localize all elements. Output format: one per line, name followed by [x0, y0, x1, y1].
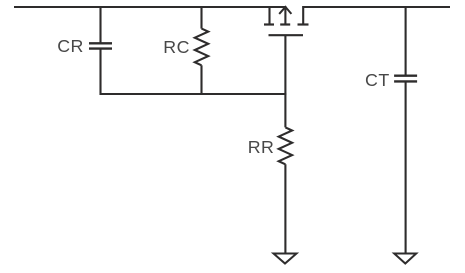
ground symbol below CT — [394, 254, 416, 264]
Q1 substrate arrow — [284, 7, 286, 25]
wire RC top lead — [200, 7, 202, 29]
wire RR bottom lead — [284, 164, 286, 253]
resistor RR — [279, 127, 292, 164]
wire CT top lead — [405, 7, 407, 76]
transistor Q1 (MOSFET) — [264, 6, 309, 35]
resistor RC — [195, 29, 208, 66]
wire RC bottom lead — [200, 65, 202, 95]
Q1 middle contact bar — [280, 23, 290, 25]
wire CR bottom lead — [99, 49, 101, 95]
label RR — [248, 139, 275, 157]
Q1 gate line — [269, 34, 304, 36]
label CT — [365, 72, 390, 90]
capacitor CR — [89, 43, 112, 48]
wire CR top lead — [99, 7, 101, 43]
label CR — [57, 38, 84, 56]
Q1 left leg (drain) — [268, 6, 270, 25]
wire bottom bus — [100, 93, 287, 95]
Q1 right contact bar — [298, 23, 309, 25]
wire CT bottom lead — [405, 81, 407, 253]
wire gate down to bus and RR — [284, 35, 286, 127]
Q1 right leg (source) — [302, 6, 304, 25]
label RC — [163, 39, 190, 57]
capacitor CT — [394, 76, 417, 82]
Q1 left contact bar — [264, 23, 274, 25]
wire top rail left segment — [14, 6, 286, 8]
ground symbol below RR — [274, 254, 297, 264]
wire top rail right segment — [302, 6, 450, 8]
